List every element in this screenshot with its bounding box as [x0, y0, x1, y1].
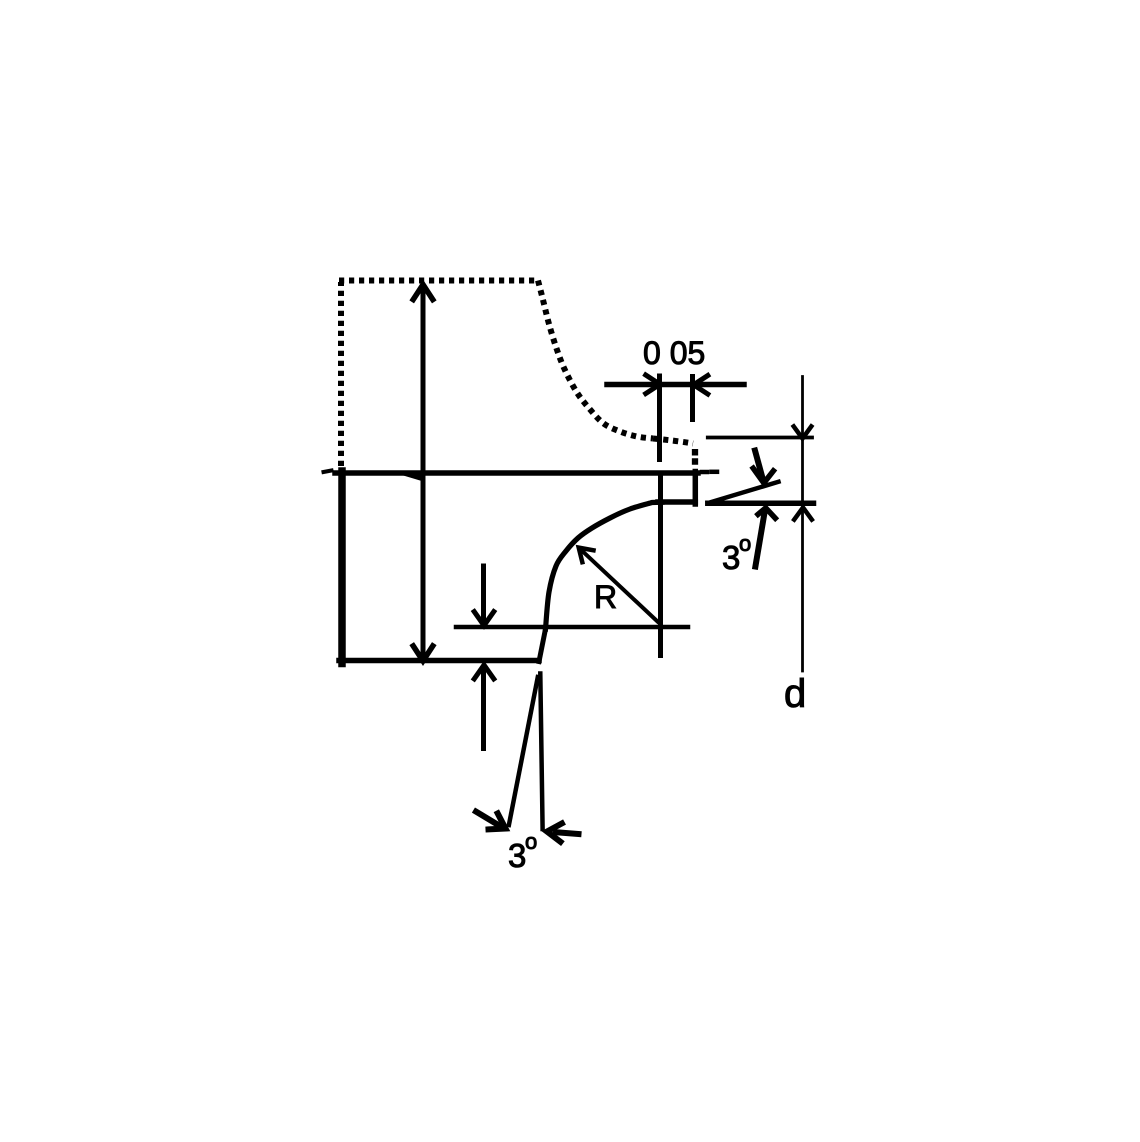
- small offset dimension lower line: [481, 668, 486, 749]
- solid profile concave curve: [546, 502, 663, 629]
- svg-text:3: 3: [508, 837, 526, 874]
- small offset dimension upper line: [481, 566, 486, 621]
- R center vertical extension line: [658, 474, 663, 656]
- 3-degree lower reference line (vertical): [540, 674, 542, 830]
- solid profile 3-degree taper edge: [539, 629, 546, 662]
- 3-degree upper arrow stem (down): [755, 451, 763, 479]
- solid profile bottom line: [339, 658, 539, 664]
- 3-degree upper arrowhead up: [758, 508, 775, 518]
- solid profile step right vertical: [693, 472, 699, 505]
- solid profile step bottom: [658, 499, 695, 505]
- dashed centerline tick left: [324, 471, 332, 473]
- 3-degree lower arrowhead left: [547, 823, 562, 841]
- R horizontal extension line: [456, 625, 688, 630]
- 3-degree upper slanted line: [708, 482, 779, 503]
- main vertical dimension line: [421, 287, 426, 659]
- 3-degree lower taper extension line: [509, 677, 538, 825]
- svg-text:0 05: 0 05: [643, 335, 705, 371]
- svg-text:o: o: [525, 829, 537, 854]
- 3-degree lower arrow stem (right-down): [476, 812, 500, 826]
- dotted profile step vertical: [692, 449, 698, 466]
- wedge thickening on top line: [390, 472, 425, 483]
- dotted profile concave curve: [538, 281, 653, 439]
- dashed centerline ticks right: [702, 470, 707, 475]
- 3-degree upper arrow stem (up): [755, 514, 764, 567]
- 0 05 extension vertical left: [657, 376, 662, 460]
- dotted profile step ledge: [653, 439, 693, 444]
- svg-text:d: d: [784, 672, 806, 716]
- svg-text:3: 3: [722, 539, 740, 576]
- d lower horizontal line: [708, 501, 814, 507]
- main dimension arrowhead up: [413, 285, 433, 300]
- 3-degree lower arrowhead right-down: [489, 813, 506, 829]
- d dimension vertical line: [801, 377, 804, 672]
- d upper horizontal line: [708, 436, 812, 440]
- 0 05 arrowhead pointing left: [694, 376, 708, 395]
- main dimension arrowhead down: [413, 646, 433, 661]
- svg-text:o: o: [739, 531, 751, 556]
- d arrowhead up: [794, 508, 812, 520]
- solid profile left vertical: [338, 471, 346, 664]
- small offset arrowhead up: [474, 665, 494, 679]
- dotted profile top edge: [339, 278, 538, 284]
- dotted profile left vertical: [338, 282, 344, 466]
- 3-degree lower arrow stem (left): [556, 832, 579, 834]
- R arrowhead: [579, 548, 594, 563]
- d arrowhead down: [794, 426, 812, 438]
- svg-text:R: R: [594, 579, 617, 615]
- 3-degree upper arrowhead down: [753, 468, 773, 483]
- R radius arrow line: [581, 550, 658, 622]
- solid profile top line: [335, 470, 698, 476]
- 0 05 extension vertical right: [690, 377, 695, 420]
- small offset arrowhead down: [474, 612, 494, 626]
- 0 05 dimension line: [607, 382, 744, 388]
- 0 05 arrowhead pointing right: [646, 375, 660, 394]
